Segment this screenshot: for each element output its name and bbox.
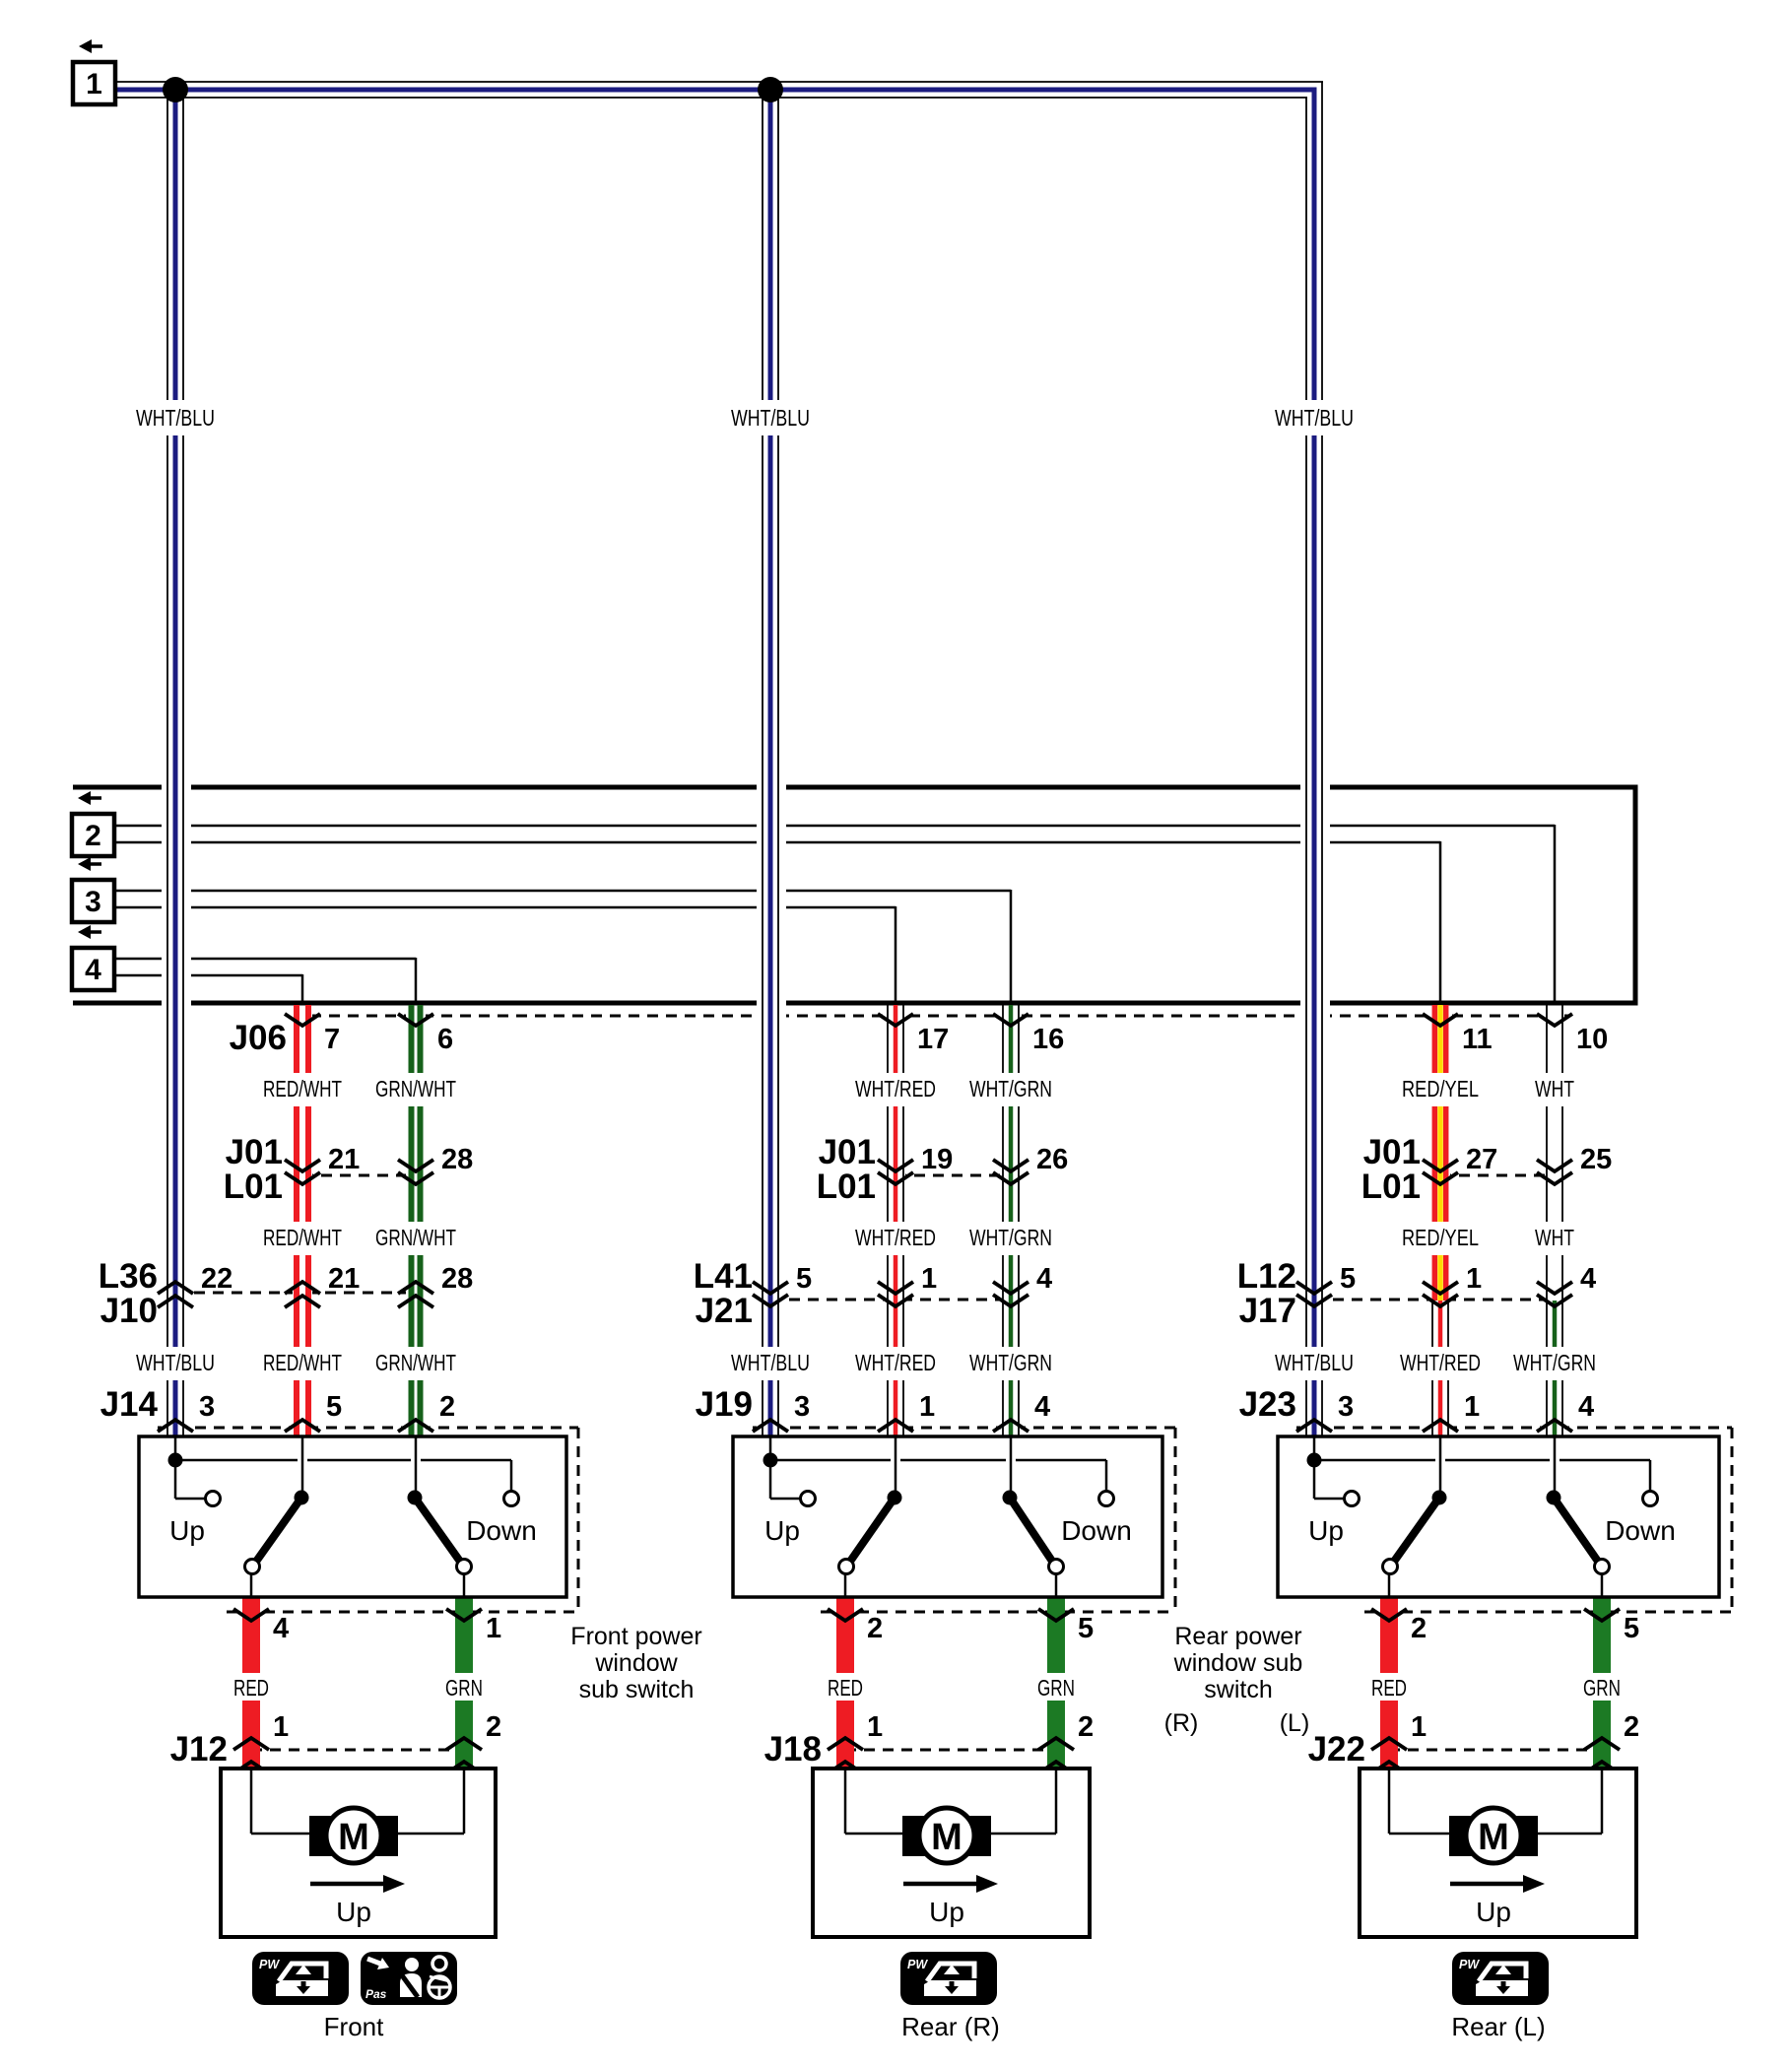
svg-text:WHT/RED: WHT/RED: [855, 1350, 936, 1375]
svg-text:5: 5: [1340, 1263, 1356, 1295]
svg-text:1: 1: [1464, 1391, 1480, 1423]
svg-text:J01: J01: [1363, 1133, 1421, 1171]
svg-text:2: 2: [867, 1613, 883, 1644]
svg-text:RED: RED: [1371, 1675, 1407, 1701]
svg-text:21: 21: [328, 1144, 360, 1175]
svg-text:5: 5: [1624, 1613, 1639, 1644]
svg-text:RED/WHT: RED/WHT: [263, 1076, 342, 1101]
svg-text:Up: Up: [1476, 1897, 1511, 1927]
svg-text:Pas: Pas: [365, 1987, 387, 2001]
svg-text:GRN/WHT: GRN/WHT: [375, 1350, 456, 1375]
svg-text:1: 1: [919, 1391, 935, 1423]
svg-text:Up: Up: [929, 1897, 964, 1927]
svg-text:RED: RED: [233, 1675, 269, 1701]
svg-text:WHT/BLU: WHT/BLU: [731, 405, 810, 431]
svg-text:4: 4: [1036, 1263, 1052, 1295]
svg-text:Down: Down: [1605, 1515, 1676, 1546]
svg-text:Rear power: Rear power: [1174, 1623, 1301, 1650]
svg-text:WHT: WHT: [1535, 1076, 1574, 1101]
svg-text:22: 22: [201, 1263, 232, 1295]
svg-text:Rear (R): Rear (R): [901, 2012, 1000, 2041]
svg-text:M: M: [1478, 1817, 1509, 1858]
svg-text:PW: PW: [259, 1958, 280, 1971]
svg-text:RED/WHT: RED/WHT: [263, 1225, 342, 1250]
svg-text:PW: PW: [1459, 1958, 1480, 1971]
svg-text:WHT/RED: WHT/RED: [855, 1076, 936, 1101]
svg-text:switch: switch: [1204, 1676, 1272, 1703]
svg-text:1: 1: [1466, 1263, 1482, 1295]
svg-text:Up: Up: [336, 1897, 371, 1927]
svg-text:J10: J10: [100, 1292, 158, 1330]
svg-text:2: 2: [486, 1711, 501, 1743]
svg-text:J18: J18: [764, 1730, 822, 1769]
svg-text:3: 3: [199, 1391, 215, 1423]
svg-text:1: 1: [867, 1711, 883, 1743]
svg-text:2: 2: [1078, 1711, 1094, 1743]
svg-text:5: 5: [1078, 1613, 1094, 1644]
svg-text:1: 1: [86, 68, 102, 100]
svg-text:2: 2: [1411, 1613, 1427, 1644]
svg-text:4: 4: [85, 954, 101, 986]
svg-text:GRN/WHT: GRN/WHT: [375, 1225, 456, 1250]
svg-text:WHT/GRN: WHT/GRN: [969, 1350, 1052, 1375]
svg-text:L01: L01: [817, 1168, 876, 1206]
svg-text:L01: L01: [224, 1168, 283, 1206]
svg-text:M: M: [338, 1817, 369, 1858]
svg-text:WHT: WHT: [1535, 1225, 1574, 1250]
svg-text:1: 1: [921, 1263, 937, 1295]
svg-text:5: 5: [326, 1391, 342, 1423]
svg-text:J22: J22: [1308, 1730, 1365, 1769]
svg-text:2: 2: [439, 1391, 455, 1423]
svg-text:J01: J01: [226, 1133, 283, 1171]
svg-text:L41: L41: [694, 1257, 753, 1296]
svg-text:RED/WHT: RED/WHT: [263, 1350, 342, 1375]
svg-text:(L): (L): [1280, 1709, 1310, 1737]
svg-text:1: 1: [486, 1613, 501, 1644]
svg-text:GRN: GRN: [1583, 1675, 1621, 1701]
svg-text:GRN/WHT: GRN/WHT: [375, 1076, 456, 1101]
svg-text:4: 4: [273, 1613, 289, 1644]
svg-text:J14: J14: [100, 1385, 159, 1424]
svg-text:WHT/BLU: WHT/BLU: [731, 1350, 810, 1375]
svg-text:Up: Up: [169, 1515, 205, 1546]
svg-text:GRN: GRN: [1037, 1675, 1075, 1701]
svg-text:Up: Up: [764, 1515, 800, 1546]
svg-text:2: 2: [85, 820, 101, 852]
svg-text:J12: J12: [170, 1730, 228, 1769]
svg-text:7: 7: [324, 1024, 340, 1055]
svg-text:RED/YEL: RED/YEL: [1402, 1076, 1479, 1101]
svg-text:J19: J19: [696, 1385, 753, 1424]
svg-text:WHT/RED: WHT/RED: [1400, 1350, 1481, 1375]
svg-text:L12: L12: [1237, 1257, 1296, 1296]
svg-text:10: 10: [1576, 1024, 1608, 1055]
svg-text:Down: Down: [1061, 1515, 1132, 1546]
svg-text:1: 1: [1411, 1711, 1427, 1743]
svg-text:WHT/BLU: WHT/BLU: [1275, 1350, 1354, 1375]
svg-text:J23: J23: [1239, 1385, 1296, 1424]
svg-text:RED: RED: [828, 1675, 863, 1701]
svg-text:1: 1: [273, 1711, 289, 1743]
svg-text:L36: L36: [99, 1257, 158, 1296]
svg-text:J21: J21: [696, 1292, 753, 1330]
svg-text:Down: Down: [466, 1515, 537, 1546]
svg-text:28: 28: [441, 1144, 473, 1175]
svg-text:GRN: GRN: [445, 1675, 483, 1701]
svg-text:WHT/RED: WHT/RED: [855, 1225, 936, 1250]
svg-text:28: 28: [441, 1263, 473, 1295]
svg-text:sub switch: sub switch: [579, 1676, 695, 1703]
svg-text:WHT/BLU: WHT/BLU: [136, 1350, 215, 1375]
svg-text:4: 4: [1578, 1391, 1594, 1423]
svg-text:RED/YEL: RED/YEL: [1402, 1225, 1479, 1250]
svg-text:Rear (L): Rear (L): [1451, 2012, 1545, 2041]
svg-text:21: 21: [328, 1263, 360, 1295]
svg-text:16: 16: [1032, 1024, 1064, 1055]
svg-text:L01: L01: [1361, 1168, 1421, 1206]
svg-text:PW: PW: [907, 1958, 928, 1971]
svg-text:(R): (R): [1164, 1709, 1199, 1737]
svg-text:window: window: [594, 1649, 678, 1677]
svg-text:19: 19: [921, 1144, 953, 1175]
svg-text:11: 11: [1462, 1024, 1493, 1055]
svg-text:M: M: [931, 1817, 962, 1858]
svg-text:J01: J01: [819, 1133, 876, 1171]
svg-text:6: 6: [437, 1024, 453, 1055]
svg-text:WHT/GRN: WHT/GRN: [1513, 1350, 1596, 1375]
svg-text:3: 3: [85, 886, 101, 918]
svg-text:WHT/BLU: WHT/BLU: [136, 405, 215, 431]
svg-text:WHT/GRN: WHT/GRN: [969, 1076, 1052, 1101]
svg-text:WHT/BLU: WHT/BLU: [1275, 405, 1354, 431]
svg-text:5: 5: [796, 1263, 812, 1295]
svg-text:3: 3: [1338, 1391, 1354, 1423]
svg-text:26: 26: [1036, 1144, 1068, 1175]
svg-text:WHT/GRN: WHT/GRN: [969, 1225, 1052, 1250]
svg-text:J06: J06: [230, 1019, 287, 1057]
svg-text:27: 27: [1466, 1144, 1497, 1175]
svg-text:Up: Up: [1308, 1515, 1344, 1546]
svg-text:25: 25: [1580, 1144, 1612, 1175]
svg-text:J17: J17: [1239, 1292, 1296, 1330]
svg-text:3: 3: [794, 1391, 810, 1423]
svg-text:4: 4: [1034, 1391, 1050, 1423]
svg-text:17: 17: [917, 1024, 949, 1055]
svg-text:window sub: window sub: [1173, 1649, 1303, 1677]
svg-text:Front: Front: [324, 2012, 384, 2041]
svg-text:2: 2: [1624, 1711, 1639, 1743]
svg-text:Front power: Front power: [570, 1623, 701, 1650]
svg-text:4: 4: [1580, 1263, 1596, 1295]
